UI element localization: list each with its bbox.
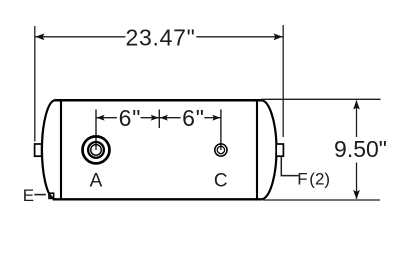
arrowhead down of 9.50 dim: [353, 190, 360, 199]
svg-text:E: E: [23, 186, 34, 205]
right head dome: [261, 100, 277, 199]
port C outer ring: [215, 144, 227, 156]
drain port E box: [49, 193, 54, 198]
tank bottom line: [53, 198, 262, 200]
leader line for F (2): [281, 157, 298, 176]
dimension line 23.47 right segment: [196, 36, 283, 38]
svg-text:6": 6": [182, 105, 205, 131]
tank top line: [55, 99, 262, 102]
arrowhead right of 23.47 dim: [274, 33, 283, 40]
middle tick of 6 inch dims: [158, 110, 160, 129]
extension line left of 23.47 dim: [34, 26, 36, 142]
fitting F right: [276, 144, 283, 156]
dim line 9.50 bottom segment: [356, 163, 358, 199]
arrowhead at port A ext: [96, 115, 104, 121]
dim line 6 inch segment 1: [96, 117, 117, 119]
svg-text:9.50": 9.50": [334, 136, 387, 162]
dimension line 23.47 left segment: [35, 36, 125, 38]
svg-text:A: A: [90, 171, 103, 192]
port A middle ring: [88, 142, 104, 158]
fitting F left: [35, 144, 42, 156]
svg-text:6": 6": [119, 105, 142, 131]
port A inner ring: [91, 145, 102, 156]
left weld seam: [60, 99, 62, 200]
dim line 6 inch segment 2: [141, 117, 181, 119]
port A outer ring: [83, 136, 110, 163]
top extension line for 9.50 dim: [261, 98, 381, 100]
dim line 9.50 top segment: [356, 101, 358, 138]
dim line 6 inch segment 3: [204, 117, 221, 119]
arrowhead left of 23.47 dim: [35, 33, 44, 40]
extension line right of 23.47 dim: [282, 25, 284, 137]
extension line down to port C: [220, 110, 222, 151]
arrowhead at port C ext: [212, 115, 220, 121]
svg-text:C: C: [214, 171, 228, 192]
port C inner ring: [217, 146, 224, 153]
bottom extension line for 9.50 dim: [263, 199, 380, 201]
arrowhead right of middle tick: [160, 115, 168, 121]
arrowhead left of middle tick: [151, 115, 159, 121]
left head dome: [42, 100, 55, 199]
svg-text:(2): (2): [309, 170, 330, 189]
leader dash for E: [34, 194, 46, 196]
extension line down to port A: [95, 110, 97, 150]
arrowhead up of 9.50 dim: [353, 100, 360, 109]
right weld seam: [256, 99, 258, 200]
svg-text:23.47": 23.47": [126, 25, 196, 51]
svg-text:F: F: [297, 170, 307, 189]
